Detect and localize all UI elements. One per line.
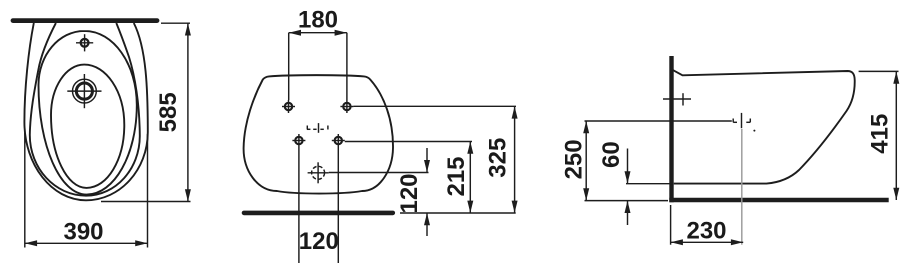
floor bar — [244, 211, 393, 216]
dim 120 line upper — [426, 148, 428, 172]
dim 215 ext (from lower right hole) — [345, 141, 472, 143]
bowl outer oval — [39, 31, 137, 195]
small dot — [753, 130, 755, 132]
drain center mark — [733, 113, 750, 128]
dim 215 line — [469, 142, 471, 213]
dim 250 line — [585, 121, 587, 201]
svg-text:180: 180 — [298, 7, 338, 34]
dim 180 ext right — [346, 33, 348, 100]
dim 415 ext top — [859, 70, 899, 72]
lower fixing hole right — [335, 137, 342, 144]
drain hole dashed circle — [312, 166, 325, 179]
upper fixing hole left — [285, 103, 292, 110]
dim 230 ext left — [670, 205, 672, 245]
grey drain axis line — [741, 129, 743, 245]
floor thick line — [669, 198, 888, 202]
bowl inner oval — [51, 65, 124, 188]
dim 60 ext (bidet bottom) — [626, 183, 672, 185]
bidet profile — [672, 70, 855, 184]
dim 415 line — [895, 71, 897, 200]
rim inner line — [30, 23, 140, 196]
dim 585 extension bottom — [101, 201, 191, 203]
dim 390 line — [25, 242, 148, 244]
lower fixing hole left — [295, 137, 302, 144]
svg-text:250: 250 — [561, 139, 588, 179]
wall thick line — [669, 56, 673, 202]
bottom 120 ext lines — [298, 147, 300, 263]
dim 60 line upper — [627, 149, 629, 184]
dim 120 line lower — [426, 213, 428, 236]
dim 180 ext left — [288, 33, 290, 100]
dim 250 ext top (drain height line) — [585, 120, 732, 122]
small crosshair hole (water inlet) — [81, 39, 89, 47]
dim 390 extension left — [24, 133, 26, 248]
svg-text:120: 120 — [396, 173, 423, 213]
large crosshair (faucet hole) — [73, 79, 97, 103]
dim 120 ext (from drain) — [329, 172, 429, 174]
svg-text:60: 60 — [598, 141, 625, 168]
svg-text:120: 120 — [299, 228, 339, 255]
svg-text:215: 215 — [443, 156, 470, 196]
dim 230 line — [671, 241, 744, 243]
upper fixing hole right — [343, 103, 350, 110]
rear outline — [244, 75, 393, 193]
dashed center mark — [307, 123, 328, 133]
dim 250 ext bottom — [585, 200, 669, 202]
fixing cross — [663, 98, 691, 100]
svg-text:415: 415 — [867, 114, 894, 154]
floor thin extension right — [400, 212, 516, 214]
outer outline egg — [24, 23, 147, 200]
dim 585 extension top — [161, 22, 190, 24]
svg-text:325: 325 — [485, 138, 512, 178]
svg-text:585: 585 — [155, 92, 182, 132]
dim 390 extension right — [147, 134, 149, 248]
dim 325 line — [514, 106, 516, 213]
dim 585 line — [187, 23, 189, 201]
dim 325 ext (from upper right hole) — [353, 105, 516, 107]
dim 60 line lower — [627, 201, 629, 225]
dim 180 line — [289, 32, 347, 34]
wall bar (top) — [13, 18, 157, 23]
svg-text:230: 230 — [686, 218, 726, 245]
svg-text:390: 390 — [63, 219, 103, 246]
